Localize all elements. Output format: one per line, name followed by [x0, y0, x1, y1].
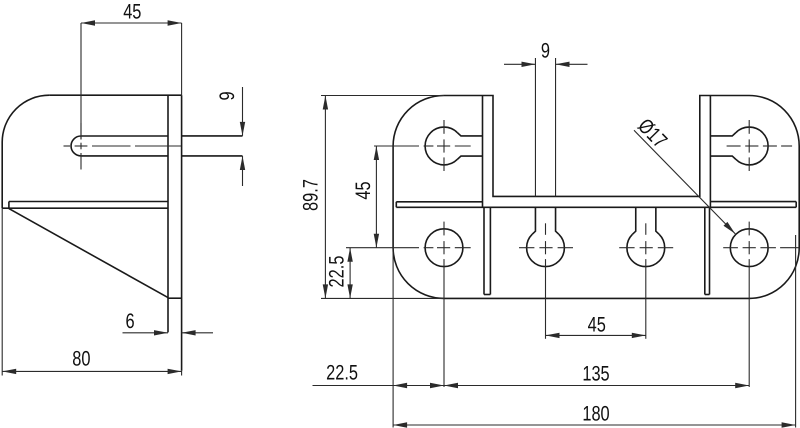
right view outline (plan with corner radii and top notch): [393, 96, 799, 299]
hole bottom-right (D17): [730, 229, 768, 267]
dimension 180 overall: [393, 235, 795, 428]
dimension 80 bottom-left: [2, 208, 181, 375]
dimension 135: [444, 363, 749, 389]
dimension 6 plate thickness: [123, 310, 214, 335]
svg-text:89.7: 89.7: [299, 179, 322, 211]
right view right gusset edge-on: [705, 207, 710, 294]
dimension 45 bottom middle holes: [546, 314, 646, 339]
right view left flange inner line: [482, 96, 484, 208]
right view right flange inner line: [709, 96, 711, 208]
dimension 22.5 vertical: [325, 248, 353, 299]
svg-text:22.5: 22.5: [326, 361, 358, 384]
left view horizontal plate edge: [9, 202, 168, 209]
svg-text:135: 135: [582, 363, 609, 386]
hole bottom-left (D17): [425, 229, 463, 267]
hole top-left (D17) with slot: [425, 127, 482, 165]
right view base plate top edge left: [396, 202, 482, 208]
svg-text:Ø17: Ø17: [633, 114, 671, 152]
left view body outline (side elevation): [2, 95, 181, 208]
hole middle-right (D17) with funnel slot: [627, 207, 665, 266]
centerline top-left hole: [374, 120, 471, 171]
svg-text:22.5: 22.5: [325, 256, 348, 288]
dimension 89.7 height: [299, 96, 444, 299]
dimension 45 vertical hole spacing: [352, 146, 379, 248]
svg-text:9: 9: [541, 40, 550, 63]
centerline middle-left hole: [519, 223, 573, 338]
dimension 9 left view: [216, 87, 245, 186]
centerline top-right hole: [727, 120, 793, 171]
svg-text:45: 45: [123, 0, 141, 23]
centerline middle-right hole: [619, 223, 673, 338]
leader and label D17: [633, 114, 735, 233]
svg-text:45: 45: [352, 181, 375, 199]
svg-text:9: 9: [216, 91, 239, 100]
svg-text:80: 80: [72, 348, 90, 371]
left view slot (9 wide) with round end: [71, 136, 168, 156]
right view base plate bottom edge: [396, 206, 796, 208]
left view gusset diagonal: [9, 209, 168, 298]
hole top-right (D17) with slot: [710, 127, 768, 165]
centerline bottom-left hole: [346, 222, 471, 387]
svg-text:180: 180: [582, 403, 609, 426]
dimension 45 top-left: [81, 0, 182, 139]
left view vertical plate (6 thick): [168, 95, 182, 371]
left view slot centerline horizontal: [64, 145, 182, 147]
dimension 9 top slot: [504, 40, 588, 197]
left view stud lines: [182, 136, 243, 156]
right view base plate top edge right: [710, 202, 796, 208]
hole middle-left (D17) with funnel slot: [527, 207, 565, 266]
svg-text:6: 6: [125, 310, 134, 333]
centerline bottom-right hole: [723, 222, 799, 387]
svg-text:45: 45: [588, 314, 606, 337]
left view slot centerline vertical: [80, 123, 82, 170]
dimension 22.5 bottom: [313, 361, 445, 388]
right view left gusset edge-on: [484, 207, 490, 294]
